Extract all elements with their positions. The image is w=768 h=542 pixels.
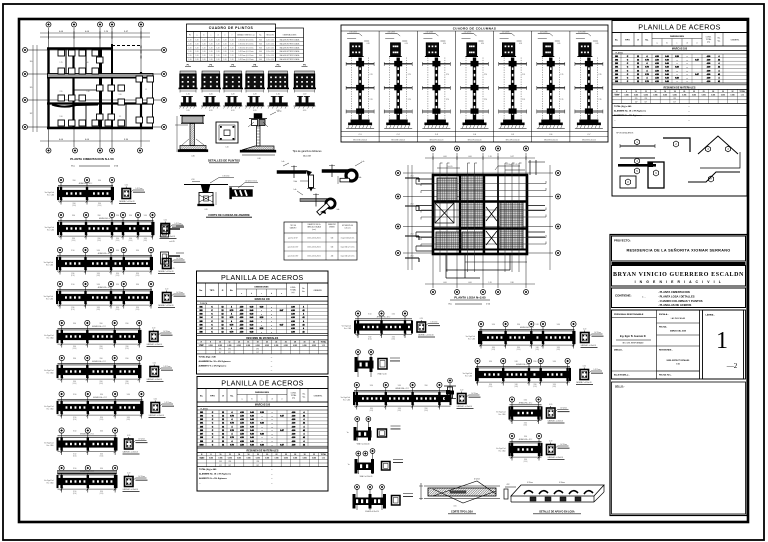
svg-text:0.395: 0.395 [209, 345, 213, 347]
svg-text:4.50: 4.50 [240, 429, 244, 432]
beam V-9 top lines [476, 365, 570, 367]
svg-text:4.50: 4.50 [655, 58, 659, 61]
svg-text:3.50: 3.50 [73, 358, 76, 360]
svg-text:0.395: 0.395 [702, 94, 706, 96]
svg-text:4.00: 4.00 [443, 282, 446, 284]
beam CAD-1 column marks [60, 187, 62, 200]
svg-text:(3.50): (3.50) [116, 275, 120, 277]
svg-text:0.47: 0.47 [280, 323, 284, 326]
svg-text:10: 10 [635, 91, 637, 93]
svg-text:ALAMBRE No. 18 = 8% Kg/acero: ALAMBRE No. 18 = 8% Kg/acero [614, 109, 647, 112]
beam V-6 section [417, 322, 426, 332]
svg-text:3.50: 3.50 [99, 323, 102, 325]
svg-text:12: 12 [637, 67, 639, 69]
anchor detail left 2 [161, 252, 169, 264]
beam CAD-1 axis bubbles [58, 177, 63, 182]
slab hatch zone 5 [500, 201, 523, 249]
svg-text:3.50: 3.50 [125, 381, 128, 383]
svg-text:3.50: 3.50 [125, 358, 128, 360]
svg-text:(3.50): (3.50) [116, 240, 120, 242]
svg-text:14: 14 [238, 453, 240, 456]
svg-text:4: 4 [232, 433, 233, 436]
svg-text:0.395: 0.395 [293, 345, 297, 347]
svg-text:1 Ø 12mm: 1 Ø 12mm [138, 438, 146, 440]
slab plan grid lines [432, 153, 434, 288]
svg-text:3.50: 3.50 [100, 417, 103, 419]
svg-text:Ver:Viga/Cad: Ver:Viga/Cad [44, 406, 53, 408]
svg-text:10: 10 [219, 341, 221, 343]
svg-text:0.20: 0.20 [549, 404, 552, 406]
svg-text:AUMENTO % = 5% Kg/acero: AUMENTO % = 5% Kg/acero [199, 477, 227, 480]
svg-text:0.395: 0.395 [312, 345, 316, 347]
svg-text:3.50: 3.50 [116, 273, 119, 275]
svg-text:(3.50): (3.50) [369, 410, 373, 412]
svg-text:Tipo de ganchos dobleces: Tipo de ganchos dobleces [292, 150, 322, 153]
svg-text:4.90: 4.90 [292, 411, 296, 414]
svg-text:3.47: 3.47 [510, 156, 513, 158]
beam CAD-3 body [57, 260, 152, 267]
svg-text:0.47: 0.47 [695, 58, 699, 61]
beam CAD-2 dimension line [58, 235, 154, 237]
svg-text:4: 4 [231, 327, 232, 330]
slab plan outline [433, 175, 527, 254]
beam CAD-3 axis bubbles [57, 247, 62, 252]
svg-text:4.90: 4.90 [291, 323, 295, 326]
svg-text:TOTAL (Kg) = 640: TOTAL (Kg) = 640 [199, 355, 217, 358]
svg-text:SECCION: SECCION [266, 34, 274, 36]
svg-text:(3.50): (3.50) [100, 419, 104, 421]
svg-text:Ø 12mm @ 0.15: Ø 12mm @ 0.15 [506, 164, 517, 166]
beam CAD-3 axis lines [59, 255, 61, 274]
svg-text:PLANTA: PLANTA [200, 302, 208, 305]
svg-text:4: 4 [304, 418, 305, 421]
slab right upper detail lines [529, 160, 531, 175]
foundation plan grid axes [48, 28, 50, 147]
svg-text:Ldh: Ldh [282, 161, 285, 163]
beam V-10 axis lines [511, 405, 513, 424]
svg-text:4.90: 4.90 [291, 305, 295, 308]
svg-text:TIPO: TIPO [625, 40, 630, 42]
svg-text:1 Ø 12mm @ 0.15: 1 Ø 12mm @ 0.15 [245, 181, 257, 183]
beam V-7 body [354, 395, 451, 402]
svg-text:1.20 x 1.20: 1.20 x 1.20 [266, 39, 274, 41]
svg-text:106: 106 [200, 430, 203, 432]
small beam m6 [355, 485, 360, 490]
beam V-6 column marks [357, 320, 359, 333]
svg-text:0.20: 0.20 [165, 255, 168, 257]
svg-text:1.20: 1.20 [196, 51, 199, 53]
slab plan axis bubbles right [556, 171, 561, 176]
svg-text:3.50: 3.50 [116, 238, 119, 240]
svg-text:(3.50): (3.50) [533, 386, 537, 388]
beam V-9 dimension line [476, 381, 570, 383]
svg-text:4.50: 4.50 [655, 55, 659, 58]
svg-text:(m): (m) [292, 292, 295, 294]
svg-text:—2: —2 [726, 362, 738, 370]
svg-text:1.20: 1.20 [225, 147, 228, 149]
beam CAD-4 body [57, 294, 152, 301]
svg-text:ING. CIVIL RESPONSABLE: ING. CIVIL RESPONSABLE [622, 342, 644, 345]
svg-text:12: 12 [637, 59, 639, 61]
svg-text:6db: 6db [337, 209, 340, 211]
svg-text:1 Ø 12mm: 1 Ø 12mm [176, 292, 184, 294]
beam V-6 top lines [355, 318, 412, 320]
anchor detail left 1 [161, 225, 169, 237]
svg-text:0.40: 0.40 [250, 327, 254, 330]
svg-text:1.20: 1.20 [189, 43, 192, 45]
svg-text:18: 18 [257, 454, 259, 456]
svg-text:0.40: 0.40 [250, 316, 254, 319]
beam V-2 axis bubbles [59, 355, 64, 360]
svg-text:0.40: 0.40 [665, 62, 669, 65]
svg-text:3.50: 3.50 [116, 307, 119, 309]
svg-text:0.40: 0.40 [250, 440, 254, 443]
svg-text:3.50: 3.50 [536, 324, 539, 326]
svg-text:0.20: 0.20 [303, 110, 306, 112]
svg-text:TIPO: TIPO [210, 290, 215, 292]
svg-text:0.20: 0.20 [260, 434, 264, 436]
svg-text:MARZO DEL 2009: MARZO DEL 2009 [670, 330, 686, 333]
foundation plan dashed wall top right [112, 45, 141, 47]
svg-text:12: 12 [222, 306, 224, 308]
svg-text:42: 42 [303, 429, 305, 432]
beam V-8 top lines [479, 328, 575, 330]
svg-text:3.50: 3.50 [71, 250, 74, 252]
svg-text:1.20: 1.20 [203, 51, 206, 53]
beam V-10 annotation [558, 409, 569, 411]
plinth section S4 [247, 103, 264, 106]
svg-text:3.50: 3.50 [116, 215, 119, 217]
beam V-11 axis lines [511, 441, 513, 460]
svg-text:SECCION 0.20x0.20: SECCION 0.20x0.20 [429, 140, 443, 142]
title block [610, 235, 747, 516]
svg-text:gancho de 135°: gancho de 135° [288, 247, 299, 249]
beam V-9 body [476, 371, 570, 378]
svg-text:22: 22 [275, 341, 277, 343]
svg-text:Ldh: Ldh [362, 161, 365, 163]
svg-text:1.20: 1.20 [217, 43, 220, 45]
svg-text:4db: 4db [359, 177, 362, 179]
svg-text:42: 42 [303, 414, 305, 417]
svg-text:106: 106 [615, 74, 618, 76]
svg-text:0.40: 0.40 [665, 73, 669, 76]
foundation plan axis bubbles top [46, 22, 51, 27]
svg-text:18: 18 [257, 341, 259, 343]
beam V-4 axis bubbles [59, 428, 64, 433]
svg-text:4 Ø 12mm: 4 Ø 12mm [426, 32, 434, 34]
svg-text:TIPO DE: TIPO DE [290, 225, 296, 227]
svg-text:0.47: 0.47 [695, 73, 699, 76]
beam V-8 dimension line [479, 344, 575, 346]
svg-text:3.50: 3.50 [73, 468, 76, 470]
svg-text:1 Ø 12mm: 1 Ø 12mm [560, 444, 568, 446]
svg-text:0.20: 0.20 [154, 399, 157, 401]
beam CAD-4 top lines [57, 288, 152, 290]
svg-text:9.00: 9.00 [259, 43, 262, 45]
svg-text:3.50: 3.50 [72, 215, 75, 217]
beam V-2 top lines [58, 362, 141, 364]
beam V-5 section [125, 477, 134, 487]
svg-text:(3.50): (3.50) [96, 309, 100, 311]
corte tipo losa detail [428, 488, 496, 496]
beam CAD-4 column marks [59, 291, 61, 304]
svg-text:4.00: 4.00 [468, 156, 471, 158]
svg-text:0.395: 0.395 [692, 94, 696, 96]
svg-text:C-1: C-1 [359, 134, 362, 136]
svg-text:12: 12 [222, 419, 224, 421]
svg-text:12: 12 [222, 430, 224, 432]
svg-text:(3.50): (3.50) [71, 275, 75, 277]
svg-text:FECHA:-: FECHA:- [659, 326, 668, 329]
svg-text:3.50: 3.50 [129, 238, 132, 240]
svg-text:PLANILLA DE ACEROS: PLANILLA DE ACEROS [221, 378, 304, 387]
svg-text:3.50: 3.50 [398, 385, 401, 387]
svg-text:0.70: 0.70 [230, 430, 234, 432]
svg-text:3.50: 3.50 [73, 431, 76, 433]
svg-text:Ver:Viga/Cad: Ver:Viga/Cad [44, 370, 53, 372]
svg-text:1.20: 1.20 [203, 47, 206, 49]
svg-text:4 Ø 12mm: 4 Ø 12mm [387, 32, 395, 34]
svg-text:(3.50): (3.50) [424, 410, 428, 412]
svg-text:2.9: 2.9 [119, 116, 121, 118]
svg-text:Ing. Egor B. Asensio R.: Ing. Egor B. Asensio R. [620, 335, 647, 338]
svg-text:- PLANTA CIMENTACION: - PLANTA CIMENTACION [658, 290, 690, 294]
svg-text:3.50: 3.50 [557, 324, 560, 326]
svg-text:4 Ø 12mm: 4 Ø 12mm [540, 32, 548, 34]
svg-text:4.50: 4.50 [655, 77, 659, 80]
foundation plan axis bubbles left [23, 48, 28, 53]
svg-text:1:50: 1:50 [676, 364, 679, 366]
svg-text:3.50: 3.50 [100, 468, 103, 470]
svg-text:3.50: 3.50 [116, 250, 119, 252]
svg-text:1.20 x 1.20: 1.20 x 1.20 [266, 55, 274, 57]
svg-text:SECCION 0.20x0.20: SECCION 0.20x0.20 [468, 140, 482, 142]
slab plan left beam stubs [416, 178, 433, 180]
svg-text:BRYAN VINICIO GUERRERO ESCA: BRYAN VINICIO GUERRERO ESCALDN [613, 272, 744, 278]
beam V-8 annotation [592, 333, 603, 335]
svg-text:12: 12 [222, 441, 224, 443]
svg-text:1.75: 1.75 [59, 62, 62, 64]
beam CAD-3 annotation [174, 259, 185, 261]
svg-text:1.13: 1.13 [741, 94, 744, 96]
svg-text:42: 42 [303, 309, 305, 312]
svg-text:3.50: 3.50 [553, 384, 556, 386]
svg-text:4 Ø 12: 4 Ø 12 [277, 111, 282, 113]
beam V-10 section [547, 408, 556, 418]
svg-text:TOTAL: TOTAL [291, 394, 297, 397]
svg-text:102: 102 [200, 415, 203, 417]
svg-text:1.20 x 1.20: 1.20 x 1.20 [266, 43, 274, 45]
svg-text:Ver:Viga/Cad: Ver:Viga/Cad [44, 335, 53, 337]
svg-text:2.70: 2.70 [598, 99, 601, 101]
svg-text:3.50: 3.50 [127, 394, 130, 396]
svg-text:4.50: 4.50 [240, 320, 244, 323]
svg-text:2.70: 2.70 [408, 99, 411, 101]
svg-text:DIBUJO:-: DIBUJO:- [614, 350, 623, 352]
svg-text:2.70: 2.70 [522, 74, 525, 76]
slab hatch zone 1 [437, 178, 457, 201]
svg-text:(3.50): (3.50) [72, 240, 76, 242]
svg-text:0.05: 0.05 [454, 506, 457, 508]
svg-text:4.50: 4.50 [655, 62, 659, 65]
beam CAD-2 section [161, 224, 170, 234]
svg-text:4.50: 4.50 [240, 313, 244, 316]
beam V-11 section [547, 445, 556, 455]
slab plan axis bubbles top [431, 146, 436, 151]
gancho 90 grados [277, 171, 306, 174]
svg-text:16: 16 [664, 91, 666, 93]
ganchos table [284, 222, 357, 260]
svg-text:0.395: 0.395 [711, 94, 715, 96]
svg-text:(3.50): (3.50) [99, 348, 103, 350]
svg-text:No.: No. [615, 40, 619, 42]
svg-text:0.20: 0.20 [186, 110, 189, 112]
svg-text:0.40: 0.40 [250, 418, 254, 421]
svg-text:3.50: 3.50 [97, 284, 100, 286]
svg-text:0.20: 0.20 [675, 78, 679, 80]
beam V-6 annotation [428, 323, 439, 325]
svg-text:2.70: 2.70 [484, 99, 487, 101]
svg-text:0.395: 0.395 [227, 345, 231, 347]
svg-text:PLANTA CIMENTACION N-1.50: PLANTA CIMENTACION N-1.50 [70, 157, 114, 161]
beam V-4 axis lines [61, 436, 63, 455]
svg-text:DETALLES DE PLINTOS: DETALLES DE PLINTOS [208, 159, 240, 163]
svg-text:1.20: 1.20 [224, 59, 227, 61]
beam V-7 column marks [356, 392, 358, 405]
svg-text:3.50: 3.50 [489, 361, 492, 363]
svg-text:0.395: 0.395 [247, 458, 251, 460]
svg-text:(3.50): (3.50) [100, 456, 104, 458]
svg-text:32: 32 [313, 454, 315, 456]
svg-text:Ver:Viga/Cad: Ver:Viga/Cad [341, 397, 350, 399]
svg-text:1.20: 1.20 [189, 59, 192, 61]
svg-text:3.50: 3.50 [99, 358, 102, 360]
beam V-9 annotation [591, 370, 602, 372]
svg-text:105: 105 [200, 321, 203, 323]
svg-text:1.20: 1.20 [196, 59, 199, 61]
svg-text:106: 106 [200, 324, 203, 326]
svg-text:101: 101 [200, 412, 203, 414]
beam V-1 axis bubbles [59, 320, 64, 325]
column C3 elevation [423, 33, 435, 35]
beam V-4 annotation [136, 440, 147, 442]
svg-text:295: 295 [644, 98, 647, 100]
svg-text:1.20: 1.20 [224, 55, 227, 57]
svg-text:d: d [271, 399, 272, 401]
svg-text:1 Ø 12mm: 1 Ø 12mm [163, 366, 171, 368]
bar shape type 9 diamond right [700, 152, 740, 168]
svg-text:3.50: 3.50 [72, 180, 75, 182]
svg-text:107: 107 [200, 328, 203, 330]
beam V-2 axis lines [61, 363, 63, 382]
svg-text:TOTAL: TOTAL [321, 340, 326, 343]
beam V-11 body [510, 446, 542, 453]
svg-text:0.20: 0.20 [164, 220, 167, 222]
small beam detail m4 [355, 417, 360, 422]
svg-text:20: 20 [683, 91, 685, 93]
svg-text:1.20: 1.20 [231, 47, 234, 49]
svg-text:Var.: Var. [302, 397, 306, 399]
beam V-4 column marks [60, 437, 62, 450]
svg-text:3.50: 3.50 [97, 250, 100, 252]
svg-text:12: 12 [222, 321, 224, 323]
beam V-10 axis bubbles [509, 397, 514, 402]
beam V-11 top lines [510, 440, 542, 442]
svg-text:4.90: 4.90 [292, 425, 296, 428]
beam CAD-4 axis lines [59, 289, 61, 308]
svg-text:2.70: 2.70 [446, 99, 449, 101]
foundation plan axis bubbles bottom [46, 148, 51, 153]
svg-text:3.0: 3.0 [30, 61, 33, 63]
svg-text:4.50: 4.50 [240, 425, 244, 428]
beam V-9 column marks [476, 368, 478, 381]
plinth section S5 [270, 103, 288, 106]
svg-text:0.395: 0.395 [303, 345, 307, 347]
svg-text:0.20: 0.20 [583, 329, 586, 331]
svg-text:104: 104 [615, 66, 618, 69]
lamina cell [703, 310, 744, 379]
svg-text:3.50: 3.50 [72, 238, 75, 240]
bar shape type 2 [663, 138, 690, 152]
svg-text:3.30: 3.30 [510, 282, 513, 284]
svg-text:0.395: 0.395 [218, 345, 222, 347]
svg-text:TOTAL: TOTAL [290, 288, 296, 291]
svg-text:AUMENTO % = 5% Kg/acero: AUMENTO % = 5% Kg/acero [199, 365, 227, 368]
svg-text:2.70: 2.70 [484, 74, 487, 76]
svg-text:3.50: 3.50 [100, 346, 103, 348]
beam V-8 section [581, 333, 590, 343]
svg-text:(3.50): (3.50) [73, 383, 77, 385]
slab plan dimension bottom [425, 283, 535, 285]
svg-text:1.20: 1.20 [196, 43, 199, 45]
svg-text:(3.50): (3.50) [524, 461, 528, 463]
svg-text:a: a [197, 34, 198, 36]
svg-text:0.395: 0.395 [663, 94, 667, 96]
beam V-4 body [58, 440, 117, 447]
svg-text:(3.50): (3.50) [517, 349, 521, 351]
beam V-1 dimension line [58, 343, 141, 345]
svg-text:1.20: 1.20 [189, 55, 192, 57]
svg-text:MINIMO: MINIMO [329, 227, 335, 229]
svg-text:1: 1 [716, 328, 728, 354]
svg-text:(3.50): (3.50) [514, 386, 518, 388]
svg-text:TOTAL (Kg) = 640: TOTAL (Kg) = 640 [199, 468, 217, 471]
svg-text:4.00: 4.00 [443, 156, 446, 158]
svg-text:9.00: 9.00 [259, 55, 262, 57]
svg-text:101: 101 [615, 56, 618, 58]
svg-text:0.395: 0.395 [237, 458, 241, 460]
plinth detail 3 - column-footing section [254, 114, 262, 119]
beam V-8 axis lines [480, 329, 482, 348]
svg-text:(3.50): (3.50) [73, 456, 77, 458]
svg-text:12: 12 [222, 437, 224, 439]
svg-text:3.50: 3.50 [533, 384, 536, 386]
foundation plan footing walls [47, 48, 49, 129]
gancho 135 grados [300, 199, 327, 202]
svg-text:1 Ø 12mm: 1 Ø 12mm [593, 369, 601, 371]
svg-text:1.20: 1.20 [224, 39, 227, 41]
svg-text:12: 12 [645, 91, 647, 93]
svg-text:42: 42 [718, 80, 720, 83]
svg-text:Ver:Viga/Cad: Ver:Viga/Cad [466, 336, 475, 338]
svg-text:0.395: 0.395 [644, 94, 648, 96]
svg-text:SECCION 0.20x0.20: SECCION 0.20x0.20 [391, 140, 405, 142]
column C2 elevation [385, 33, 397, 35]
svg-text:0.395: 0.395 [284, 458, 288, 460]
svg-text:0.20: 0.20 [420, 318, 423, 320]
svg-text:(3.50): (3.50) [556, 349, 560, 351]
svg-text:4: 4 [719, 69, 720, 72]
